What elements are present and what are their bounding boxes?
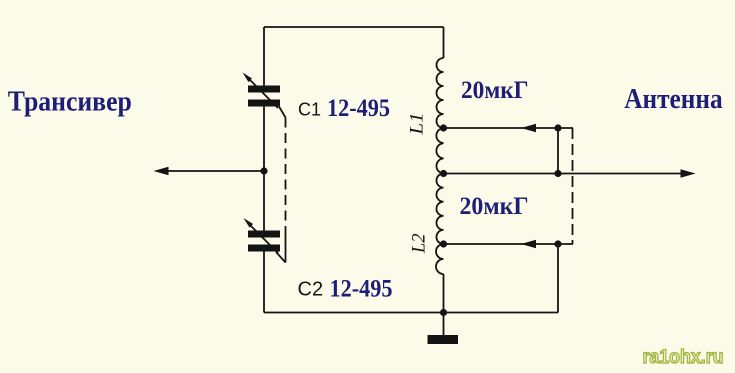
inductor L1 (upper section, 5 turns) [436,58,443,174]
wire: bottom horizontal [264,312,558,314]
svg-text:20мкГ: 20мкГ [461,77,529,104]
selector arrow on tap 2 [521,240,536,248]
svg-text:20мкГ: 20мкГ [460,193,529,220]
mechanical link selector (dashed) [572,128,574,244]
wire: left vertical below C2 [263,251,265,313]
wire: antenna lead [444,173,683,175]
node: tap 1 on coil [440,124,447,131]
node: ground junction [440,309,447,316]
wire: left vertical between C1 and C2 [263,106,265,231]
wire: selector bus upper vertical [557,128,559,174]
terminal arrow to antenna [681,169,696,177]
terminal arrow to transceiver [154,167,169,175]
wire: selector bus lower vertical [557,244,559,313]
wire: left vertical C1 top segment [263,27,265,86]
wire: transceiver lead [167,170,264,172]
wire: right vertical down to L1 [443,27,445,58]
svg-text:C2: C2 [298,279,324,301]
node: tap 2 on coil [440,240,447,247]
svg-text:L2: L2 [409,233,430,254]
svg-text:12-495: 12-495 [330,276,393,303]
svg-text:C1: C1 [298,100,321,120]
svg-text:12-495: 12-495 [327,95,390,122]
inductor L2 (lower section, 5+2 turns) [436,174,444,275]
capacitor C2 (variable) [244,218,281,253]
svg-text:Антенна: Антенна [624,84,723,115]
wire: top horizontal from C1 top to L1 top [264,26,444,28]
svg-text:L1: L1 [407,113,428,136]
node: tap 2 selector bus [554,240,561,247]
node: junction C1/C2 to transceiver [260,167,267,174]
mechanical gang link C1-C2 (dashed) [276,107,286,263]
node: coil mid tap (L1/L2 junction) [440,170,447,177]
svg-text:ra1ohx.ru: ra1ohx.ru [643,347,724,368]
wire: tap 1 (L1 tap to selector) [444,127,574,129]
node: tap 1 selector bus [554,124,561,131]
ground [428,313,459,345]
node: antenna wire junction [554,170,561,177]
selector arrow on tap 1 [521,124,536,132]
wire: L2 bottom to ground rail [443,274,445,313]
wire: tap 2 (L2 tap to selector) [444,243,574,245]
svg-text:Трансивер: Трансивер [8,87,132,118]
capacitor C1 (variable) [243,73,281,109]
